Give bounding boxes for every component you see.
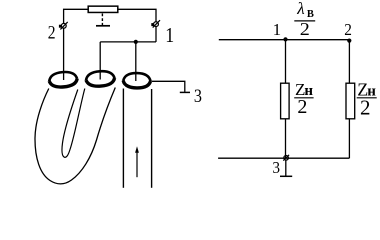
svg-text:2: 2 [360, 95, 371, 119]
coax end ellipse 1 [49, 71, 78, 88]
svg-text:В: В [307, 9, 314, 20]
wire down to ellipse 2 [99, 42, 101, 80]
right branch wire top [348, 40, 350, 83]
node 3 slash [283, 155, 289, 161]
U-loop outer wall [35, 88, 115, 184]
wire down to ellipse 3 [135, 42, 137, 81]
resistor Zн/2 left [281, 83, 290, 119]
terminal 1 circle [154, 22, 159, 27]
feeder tube right wall [151, 89, 153, 188]
svg-text:1: 1 [165, 25, 174, 48]
braid wire to ground 3 [152, 81, 185, 92]
node 3 circle [284, 156, 289, 161]
U-loop inner wall [62, 89, 85, 158]
ground bar under dashed line [96, 25, 110, 27]
ground lead below node 3 [285, 161, 287, 177]
top line lambda/2 [219, 39, 350, 41]
terminal 2 left tick [59, 25, 62, 28]
junction dot [134, 40, 138, 44]
svg-text:λ: λ [296, 0, 304, 18]
left branch wire bottom [285, 119, 287, 158]
bottom line [218, 157, 349, 159]
svg-text:2: 2 [48, 22, 56, 43]
svg-text:2: 2 [300, 20, 310, 40]
wire terminal 1 down to node [155, 27, 157, 42]
svg-text:2: 2 [344, 21, 352, 39]
wire from box right to terminal 1 [119, 9, 157, 21]
ground bar below node 3 [280, 175, 292, 177]
node 2 dot [347, 39, 351, 43]
node 1 dot [283, 37, 287, 41]
wire from box left to terminal 2 [64, 9, 88, 23]
generator box at top [88, 6, 118, 12]
terminal 2 circle [61, 23, 66, 28]
svg-text:3: 3 [194, 85, 202, 107]
svg-text:3: 3 [272, 159, 280, 177]
feeder tube left wall [122, 89, 124, 188]
svg-text:2: 2 [297, 96, 307, 118]
coax end ellipse 3 [123, 73, 151, 88]
wire terminal 2 down to ellipse 1 [63, 28, 65, 80]
coax end ellipse 2 [85, 70, 115, 87]
resistor Zн/2 right [346, 83, 355, 119]
svg-text:1: 1 [273, 20, 282, 39]
dashed line under box [101, 14, 103, 26]
terminal 2 slash [60, 22, 67, 30]
horizontal wire joining inner conductors [100, 41, 156, 43]
right branch wire bottom [348, 119, 350, 158]
left branch wire top [285, 40, 287, 83]
terminal 1 left tick [151, 23, 153, 26]
terminal 1 slash [153, 20, 160, 27]
feed arrow in tube [136, 150, 138, 178]
ground bar 3 [180, 91, 190, 93]
